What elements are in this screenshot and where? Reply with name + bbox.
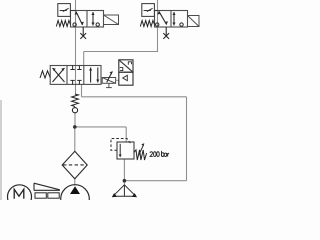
node junction pump outlet: [73, 125, 77, 129]
wire tank return bottom horizontal: [124, 180, 186, 182]
valve V2 left square flow diagonal arrow: [159, 11, 167, 24]
filter F1 dashed element: [63, 164, 86, 166]
valve V3 left return spring: [40, 71, 50, 78]
relief valve RV1 internal arrow: [119, 144, 121, 156]
check valve CV1 spring: [72, 94, 79, 106]
wire tank return right vertical: [186, 97, 188, 181]
pump P1 outlet triangle: [70, 186, 80, 194]
wire junction to relief valve horizontal: [75, 126, 126, 128]
valve V2 port seat circle right: [180, 23, 183, 26]
wire solenoid to pilot amplifier: [116, 79, 119, 81]
valve V1 return spring: [56, 21, 70, 27]
coupling base plates: [35, 193, 59, 198]
relief valve RV1 body: [117, 142, 134, 159]
relief valve RV1 pilot dashed line: [111, 139, 131, 151]
pump P1 circle: [61, 185, 90, 214]
left window border: [0, 100, 2, 200]
valve V1 port seat circle left: [73, 23, 76, 26]
valve V1 left square flow diagonal arrow: [76, 12, 83, 26]
valve V1 3/2-way solenoid valve body: [71, 11, 104, 28]
pilot amplifier U1 corner marks: [120, 62, 132, 71]
relief valve RV1 adjustment arrow: [139, 145, 144, 156]
motor M1 circle: [8, 185, 32, 209]
valve V2 right square double arrow: [173, 12, 175, 26]
valve V2 switch contact: [144, 8, 158, 11]
wire tank junction to tank symbol: [123, 181, 125, 186]
wire V2 to main valve horizontal: [84, 51, 158, 53]
valve V2 blocked port x: [163, 27, 169, 39]
valve V2 return spring: [140, 21, 154, 27]
pilot amplifier U1 box with diagonal: [119, 60, 133, 72]
pilot stage U1 triangle: [123, 75, 128, 80]
valve V3 middle square blocked ports: [70, 66, 81, 85]
valve V2 port seat circle left: [156, 23, 159, 26]
wire P supply vertical through line (top to check valve): [75, 0, 77, 94]
check valve CV1 ball: [72, 108, 77, 113]
valve V1 solenoid box: [104, 15, 119, 25]
valve V3 proportional solenoid box: [102, 78, 115, 84]
valve V3 right square parallel arrows: [90, 68, 92, 83]
valve V1 port seat circle right: [96, 23, 99, 26]
valve V3 left square crossed arrows: [53, 68, 65, 82]
motor M1 letter: [14, 189, 24, 199]
wire relief valve to tank junction: [123, 159, 125, 181]
wire check valve to junction: [74, 113, 76, 127]
wire down into relief valve: [125, 127, 127, 142]
wire filter to pump: [74, 179, 76, 186]
wire tank return horizontal long: [82, 96, 187, 98]
node junction tank line: [123, 179, 127, 183]
wire main valve T port down: [81, 84, 83, 96]
tank T1 triangle symbol: [114, 185, 136, 197]
valve V1 switch contact: [60, 8, 76, 11]
valve V3 4/3-way proportional valve body: [50, 66, 101, 85]
pilot stage U1 lower box: [119, 72, 133, 85]
valve V1 right square double arrow: [92, 12, 94, 26]
wire down into main valve port B: [83, 52, 85, 66]
wire junction down to filter: [74, 127, 76, 151]
valve V2 switch box: [142, 4, 155, 17]
valve V2 solenoid box: [188, 16, 200, 27]
relief valve RV1 value label 200 bar: [150, 151, 169, 157]
coupling housing wedge: [34, 183, 60, 190]
valve V1 switch box: [58, 4, 71, 17]
valve V3 proportional arrow: [107, 71, 113, 82]
valve V2 3/2-way solenoid valve body: [155, 11, 188, 28]
relief valve RV1 spring: [134, 150, 147, 160]
valve V1 blocked port x: [80, 27, 86, 39]
filter F1 diamond: [62, 151, 87, 179]
valve V3 drain to tank stub: [106, 83, 112, 87]
wire valve V2 vertical through line: [157, 0, 159, 52]
